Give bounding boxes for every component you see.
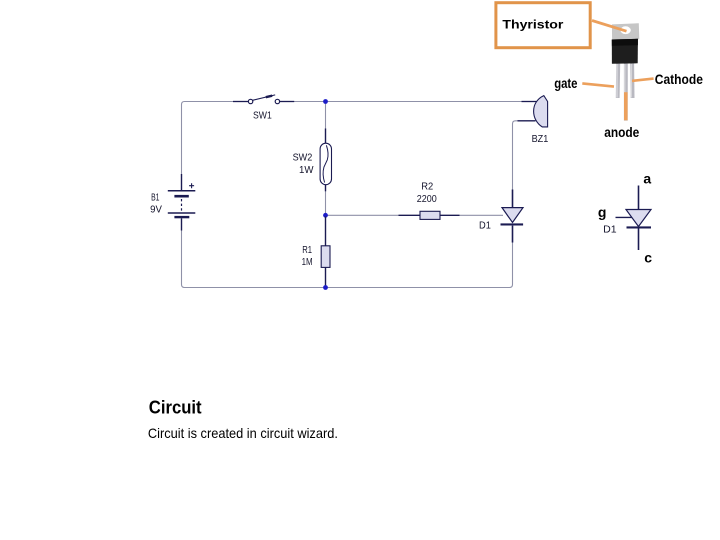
leader line anode	[624, 92, 628, 120]
svg-text:Thyristor: Thyristor	[502, 18, 563, 32]
wire R2 to thyristor gate	[460, 214, 504, 216]
svg-text:R1: R1	[302, 245, 312, 256]
thyristor symbol annotation U1	[616, 186, 652, 251]
resistor R2	[399, 211, 460, 219]
svg-text:Circuit: Circuit	[149, 398, 202, 418]
svg-text:R2: R2	[421, 182, 433, 193]
wire lamp to node B	[325, 191, 327, 215]
svg-text:9V: 9V	[150, 205, 162, 216]
svg-text:c: c	[644, 249, 652, 265]
TO-220 package	[612, 23, 640, 120]
leader line gate	[582, 83, 614, 86]
resistor R1	[321, 217, 330, 288]
node B (mid junction)	[323, 213, 328, 218]
svg-text:2200: 2200	[417, 194, 437, 205]
wire buzzer bottom to thyristor anode	[513, 121, 519, 191]
svg-text:anode: anode	[604, 124, 639, 140]
callout box Thyristor	[496, 3, 590, 48]
svg-text:gate: gate	[554, 75, 577, 91]
svg-text:SW2: SW2	[293, 152, 313, 163]
thyristor D1	[501, 190, 524, 243]
wire middle branch top (node A to lamp)	[325, 102, 327, 130]
buzzer BZ1	[518, 96, 548, 127]
svg-text:Cathode: Cathode	[655, 71, 703, 87]
leader line cathode	[632, 79, 654, 81]
wire left side bottom rail to thyristor	[182, 230, 513, 288]
svg-text:Circuit is created in circuit: Circuit is created in circuit wizard.	[148, 425, 338, 441]
svg-text:1M: 1M	[302, 257, 313, 268]
lamp SW2	[320, 129, 331, 192]
svg-text:1W: 1W	[299, 165, 314, 176]
wire node B to R2	[326, 214, 399, 216]
svg-text:D1: D1	[603, 224, 617, 235]
battery B1	[168, 174, 196, 231]
svg-text:SW1: SW1	[253, 110, 272, 121]
svg-text:BZ1: BZ1	[532, 134, 549, 145]
svg-text:g: g	[598, 204, 607, 220]
node A (top junction)	[323, 99, 328, 104]
switch SW1	[233, 95, 294, 104]
wire top rail right of switch	[278, 101, 535, 103]
svg-text:B1: B1	[151, 193, 160, 204]
svg-text:a: a	[643, 170, 651, 186]
node C (bottom junction)	[323, 285, 328, 290]
svg-text:D1: D1	[479, 221, 491, 232]
leader line box to package	[592, 21, 627, 32]
wire top rail and left side from battery top	[182, 102, 250, 175]
